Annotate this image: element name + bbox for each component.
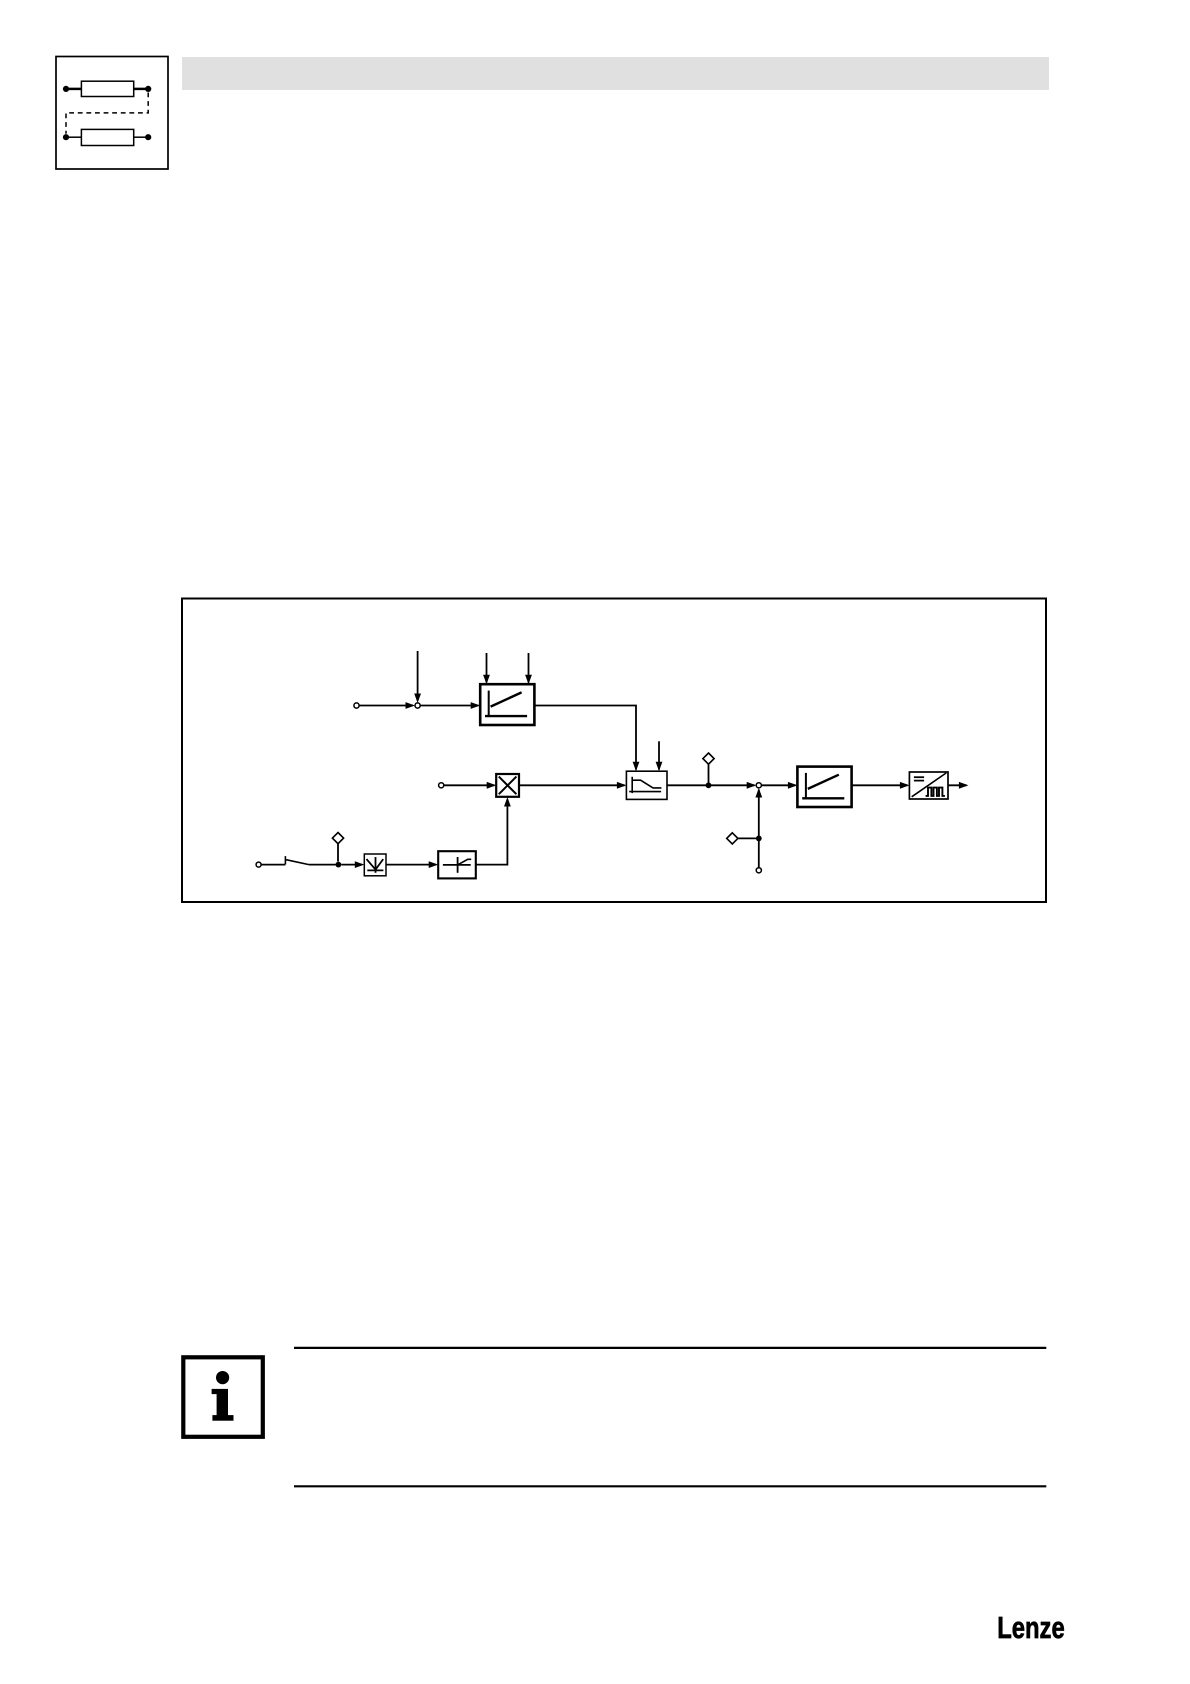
svg-text:Lenze: Lenze — [997, 1610, 1064, 1645]
